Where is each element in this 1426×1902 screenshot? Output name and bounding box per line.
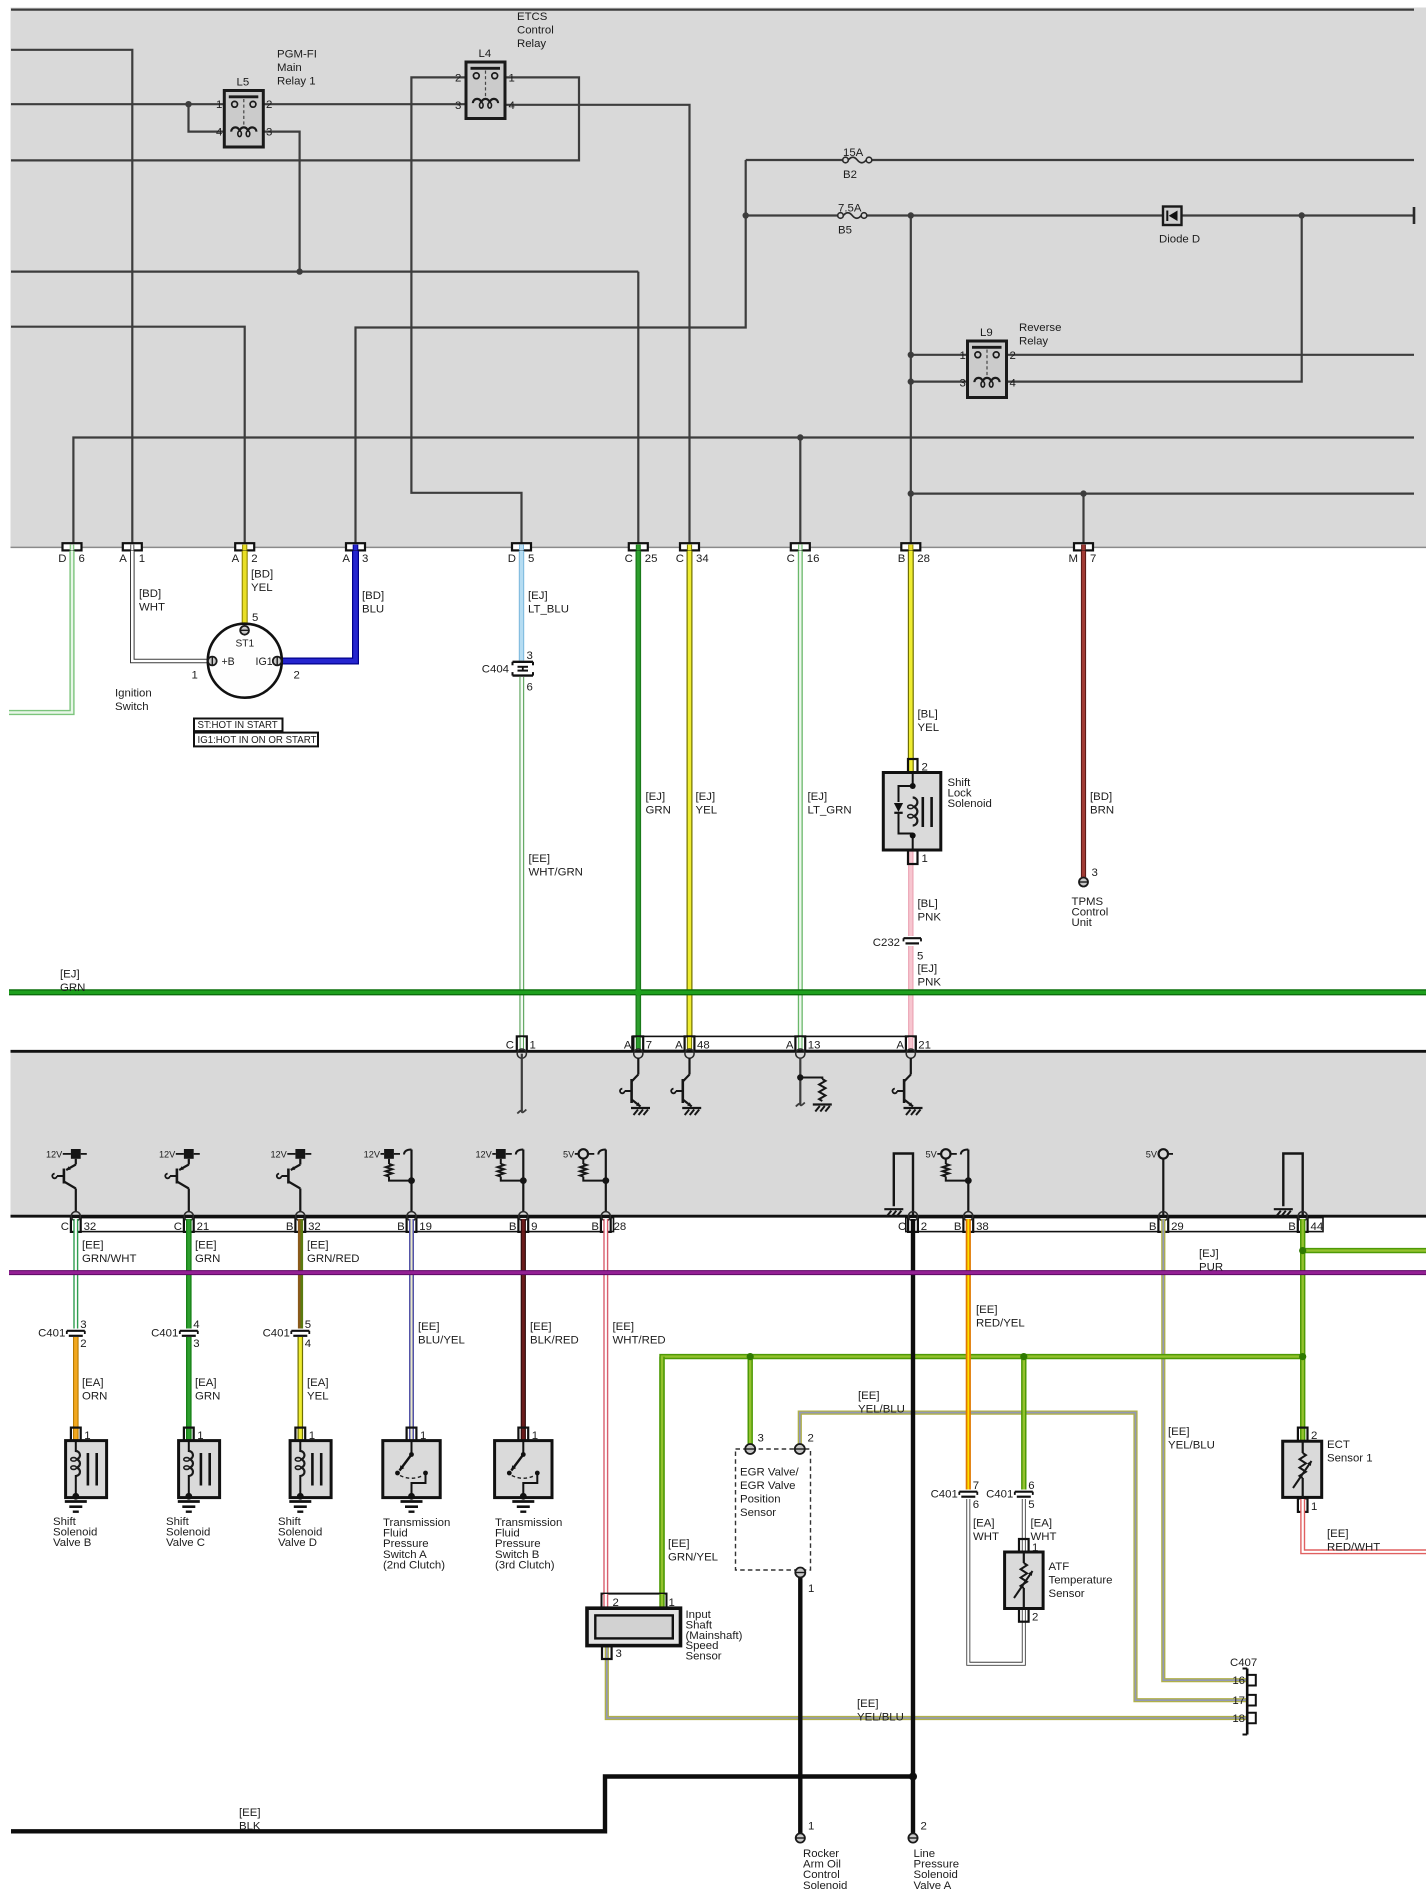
svg-text:[EE]: [EE] bbox=[858, 1390, 880, 1402]
wire bus lower right bbox=[911, 493, 1414, 495]
svg-text:1: 1 bbox=[960, 350, 966, 362]
junction bbox=[296, 268, 302, 274]
svg-text:[BL]: [BL] bbox=[918, 898, 938, 910]
svg-text:Position: Position bbox=[740, 1494, 781, 1506]
svg-text:LT_BLU: LT_BLU bbox=[528, 604, 569, 616]
svg-text:3: 3 bbox=[758, 1433, 764, 1445]
svg-text:C: C bbox=[61, 1221, 69, 1233]
pull-down resistor at pin A13 bbox=[796, 1058, 826, 1107]
ground bbox=[884, 1208, 903, 1210]
wire [EJ] LT_GRN pin C16 to pin A13 bbox=[798, 551, 803, 1037]
svg-text:C: C bbox=[787, 553, 795, 565]
svg-text:2: 2 bbox=[80, 1338, 86, 1350]
junction bbox=[1299, 1353, 1306, 1360]
svg-text:13: 13 bbox=[808, 1040, 821, 1052]
svg-text:C401: C401 bbox=[38, 1328, 65, 1340]
internal ground loop at pin C2 bbox=[894, 1154, 913, 1217]
solenoid valve pin 1 bbox=[71, 1428, 81, 1441]
svg-text:5V: 5V bbox=[926, 1149, 938, 1159]
5V pull-up at pin B38 bbox=[926, 1149, 972, 1211]
svg-text:C: C bbox=[506, 1040, 514, 1052]
svg-text:5: 5 bbox=[252, 612, 258, 624]
input shaft (mainshaft) speed sensor bbox=[587, 1608, 681, 1645]
pin B28 connector bbox=[601, 1217, 611, 1232]
wire [EE] GRN/RED pin B32 to C401 bbox=[299, 1219, 302, 1329]
svg-text:PNK: PNK bbox=[918, 977, 942, 989]
svg-text:[BD]: [BD] bbox=[1090, 791, 1112, 803]
svg-text:[EE]: [EE] bbox=[195, 1240, 217, 1252]
svg-text:1: 1 bbox=[922, 853, 928, 865]
svg-text:Sensor: Sensor bbox=[1049, 1588, 1085, 1600]
svg-text:WHT: WHT bbox=[139, 602, 165, 614]
svg-text:RED/WHT: RED/WHT bbox=[1327, 1542, 1380, 1554]
svg-text:C401: C401 bbox=[986, 1489, 1013, 1501]
wire [EJ] GRN pin C25 to pin A7 bbox=[635, 551, 641, 1037]
svg-text:A: A bbox=[896, 1040, 904, 1052]
svg-text:C: C bbox=[898, 1221, 906, 1233]
svg-text:17: 17 bbox=[1232, 1695, 1245, 1707]
wire [EJ] GRN main bus bbox=[9, 989, 1426, 995]
svg-text:12V: 12V bbox=[159, 1149, 176, 1159]
svg-text:B: B bbox=[286, 1221, 294, 1233]
wire relay L9 pin 4 coil return bbox=[1006, 216, 1302, 382]
svg-text:D: D bbox=[58, 553, 66, 565]
svg-text:Temperature: Temperature bbox=[1049, 1575, 1113, 1587]
svg-text:A: A bbox=[786, 1040, 794, 1052]
svg-text:Valve D: Valve D bbox=[278, 1537, 317, 1549]
svg-text:[EJ]: [EJ] bbox=[1199, 1248, 1219, 1260]
svg-text:2: 2 bbox=[1010, 350, 1016, 362]
svg-text:6: 6 bbox=[527, 682, 533, 694]
pin M7 connector bbox=[1074, 543, 1093, 550]
junction bbox=[1020, 1353, 1027, 1360]
svg-text:IG1:HOT IN ON OR START: IG1:HOT IN ON OR START bbox=[198, 735, 317, 746]
svg-text:Solenoid: Solenoid bbox=[803, 1880, 847, 1892]
wire relay L9 pin 2 bbox=[1006, 354, 1414, 356]
svg-text:1: 1 bbox=[808, 1583, 814, 1595]
ATF sensor pin 2 bbox=[1019, 1609, 1029, 1622]
svg-text:3: 3 bbox=[266, 127, 272, 139]
wire GRN/YEL branch to EGR pin 3 bbox=[748, 1357, 753, 1444]
wire L5 pin 3 bbox=[263, 132, 300, 272]
EGR valve / EGR valve position sensor box bbox=[736, 1449, 811, 1570]
svg-text:ETCS: ETCS bbox=[517, 11, 548, 23]
svg-text:L5: L5 bbox=[237, 77, 250, 89]
svg-text:9: 9 bbox=[531, 1221, 537, 1233]
svg-text:[EA]: [EA] bbox=[307, 1377, 329, 1389]
note box ST bbox=[194, 719, 283, 732]
wire to pin B28 bbox=[910, 216, 912, 544]
wire [EE] WHT/GRN C404 to pin C1 bbox=[519, 677, 524, 1037]
svg-text:GRN: GRN bbox=[646, 805, 671, 817]
band 2 top boundary bbox=[11, 1050, 1426, 1053]
svg-text:2: 2 bbox=[921, 1221, 927, 1233]
pin A1 connector bbox=[123, 543, 142, 550]
svg-text:C: C bbox=[174, 1221, 182, 1233]
wire [EE] BLK pin C2 to line pressure solenoid bbox=[911, 1219, 915, 1834]
ground bbox=[401, 1500, 423, 1503]
wire [BD] WHT pin A1 to ignition +B bbox=[132, 551, 208, 661]
pin A13 connector bbox=[795, 1036, 805, 1051]
svg-text:6: 6 bbox=[973, 1499, 979, 1511]
svg-text:C: C bbox=[676, 553, 684, 565]
relay L9 box bbox=[968, 341, 1007, 398]
svg-text:[EJ]: [EJ] bbox=[60, 969, 80, 981]
svg-text:[EE]: [EE] bbox=[668, 1538, 690, 1550]
relay L5 box bbox=[224, 91, 263, 148]
ECU internal area (lower gray band) bbox=[11, 1051, 1426, 1216]
svg-text:Switch: Switch bbox=[115, 701, 149, 713]
svg-text:B: B bbox=[954, 1221, 962, 1233]
svg-text:YEL: YEL bbox=[307, 1391, 329, 1403]
svg-text:A: A bbox=[119, 553, 127, 565]
svg-text:Diode D: Diode D bbox=[1159, 234, 1200, 246]
wire to pin C25 bbox=[637, 272, 639, 544]
svg-text:21: 21 bbox=[197, 1221, 210, 1233]
svg-text:C407: C407 bbox=[1230, 1657, 1257, 1669]
svg-text:B5: B5 bbox=[838, 225, 852, 237]
svg-text:BLU: BLU bbox=[362, 604, 384, 616]
svg-text:[BD]: [BD] bbox=[251, 569, 273, 581]
svg-text:3: 3 bbox=[1092, 867, 1098, 879]
wire [BL] PNK shift lock solenoid pin 1 to C232 bbox=[908, 852, 913, 937]
svg-text:WHT: WHT bbox=[973, 1531, 999, 1543]
ground bbox=[1274, 1208, 1293, 1210]
svg-text:28: 28 bbox=[917, 553, 930, 565]
TPMS control unit terminal pin 3 bbox=[1079, 878, 1088, 887]
svg-text:1: 1 bbox=[509, 73, 515, 85]
svg-text:2: 2 bbox=[266, 99, 272, 111]
wire relay L4 pin 4 to pin C34 bbox=[505, 105, 690, 544]
svg-text:A: A bbox=[675, 1040, 683, 1052]
svg-text:BLU/YEL: BLU/YEL bbox=[418, 1335, 465, 1347]
ignition terminal IG1 pin 2 bbox=[273, 657, 282, 666]
svg-text:GRN/RED: GRN/RED bbox=[307, 1253, 360, 1265]
svg-text:GRN: GRN bbox=[195, 1391, 220, 1403]
svg-text:38: 38 bbox=[976, 1221, 989, 1233]
svg-text:L4: L4 bbox=[479, 48, 492, 60]
svg-text:[EE]: [EE] bbox=[613, 1321, 635, 1333]
solenoid valve Valve B bbox=[66, 1441, 107, 1500]
svg-text:[EA]: [EA] bbox=[195, 1377, 217, 1389]
fuse B2 15A bbox=[843, 157, 849, 163]
shift lock solenoid pin 2 bbox=[908, 759, 918, 773]
svg-text:[EJ]: [EJ] bbox=[808, 791, 828, 803]
svg-text:C: C bbox=[625, 553, 633, 565]
wire stub in pin A13 bbox=[798, 1037, 803, 1049]
svg-text:Sensor 1: Sensor 1 bbox=[1327, 1453, 1373, 1465]
junction bbox=[908, 212, 914, 218]
transistor driver at pin A48 bbox=[671, 1058, 692, 1107]
ground bbox=[65, 1500, 87, 1503]
svg-text:Valve C: Valve C bbox=[166, 1537, 205, 1549]
pin circle bbox=[634, 1049, 643, 1058]
svg-text:+B: +B bbox=[222, 656, 235, 668]
svg-text:Solenoid: Solenoid bbox=[948, 798, 992, 810]
svg-text:Sensor: Sensor bbox=[686, 1650, 722, 1662]
rocker arm oil control solenoid terminal pin 1 bbox=[796, 1833, 805, 1842]
svg-text:YEL: YEL bbox=[696, 805, 718, 817]
junction bbox=[909, 1773, 917, 1781]
svg-text:EGR Valve: EGR Valve bbox=[740, 1480, 796, 1492]
pin circle bbox=[601, 1212, 610, 1221]
svg-text:16: 16 bbox=[807, 553, 820, 565]
svg-text:B: B bbox=[397, 1221, 405, 1233]
svg-text:12V: 12V bbox=[270, 1149, 287, 1159]
wire bus to pin D6 bbox=[73, 438, 1414, 544]
EGR terminal pin 1 bbox=[795, 1568, 805, 1578]
svg-text:YEL: YEL bbox=[918, 722, 940, 734]
svg-text:16: 16 bbox=[1232, 1675, 1245, 1687]
svg-text:M: M bbox=[1069, 553, 1079, 565]
wire [EJ] YEL pin C34 to pin A48 bbox=[687, 551, 693, 1037]
wire [EA] YEL C401 to shift solenoid valve D bbox=[297, 1337, 303, 1440]
pin A48 connector bbox=[685, 1036, 695, 1051]
svg-text:B: B bbox=[591, 1221, 599, 1233]
ECT sensor pin 1 bbox=[1298, 1498, 1308, 1512]
5V pull-up at pin B28 bbox=[563, 1149, 609, 1211]
svg-text:BRN: BRN bbox=[1090, 805, 1114, 817]
svg-text:Relay: Relay bbox=[517, 38, 546, 50]
TFP switch Switch A bbox=[383, 1441, 440, 1500]
svg-text:5: 5 bbox=[1028, 1499, 1034, 1511]
svg-text:BLK: BLK bbox=[239, 1821, 261, 1833]
junction bbox=[743, 212, 749, 218]
ground bbox=[631, 1107, 650, 1109]
svg-text:L9: L9 bbox=[980, 327, 993, 339]
svg-text:B: B bbox=[1149, 1221, 1157, 1233]
svg-text:B: B bbox=[1288, 1221, 1296, 1233]
svg-text:4: 4 bbox=[509, 100, 515, 112]
svg-text:GRN/YEL: GRN/YEL bbox=[668, 1552, 718, 1564]
svg-text:BLK/RED: BLK/RED bbox=[530, 1335, 579, 1347]
svg-text:[EJ]: [EJ] bbox=[918, 963, 938, 975]
pin B29 connector bbox=[1158, 1217, 1168, 1232]
input speed sensor connector bbox=[602, 1594, 667, 1609]
svg-text:PGM-FI: PGM-FI bbox=[277, 49, 317, 61]
svg-text:7: 7 bbox=[973, 1480, 979, 1492]
wire relay L9 pin 1 bbox=[911, 354, 968, 356]
wire [EE] YEL/BLU pin B29 to C407 pin 16 bbox=[1163, 1219, 1246, 1680]
svg-text:[EA]: [EA] bbox=[1031, 1518, 1053, 1530]
pin circle bbox=[1159, 1212, 1168, 1221]
wire [EE] BLK/RED pin B9 to TFP switch B bbox=[521, 1219, 526, 1440]
svg-text:5: 5 bbox=[528, 553, 534, 565]
wire to pin A1 bbox=[11, 50, 132, 544]
wire [EA] WHT C401 to ATF pin 1 bbox=[1022, 1499, 1026, 1551]
ECT sensor pin 2 bbox=[1298, 1428, 1308, 1442]
svg-text:[BD]: [BD] bbox=[362, 590, 384, 602]
svg-text:[EE]: [EE] bbox=[1327, 1528, 1349, 1540]
ECT sensor 1 bbox=[1283, 1441, 1322, 1497]
ignition terminal +B pin 1 bbox=[208, 657, 217, 666]
svg-text:GRN: GRN bbox=[195, 1253, 220, 1265]
junction bbox=[908, 378, 914, 384]
pin circle bbox=[184, 1212, 193, 1221]
svg-text:C404: C404 bbox=[482, 664, 509, 676]
wire 15A fuse feed bbox=[746, 159, 843, 161]
pin A21 connector bbox=[906, 1036, 916, 1051]
svg-text:YEL/BLU: YEL/BLU bbox=[857, 1712, 904, 1724]
TFP switch pin 1 bbox=[518, 1428, 528, 1441]
connector strip C32-B28 bbox=[71, 1218, 613, 1232]
pin C16 connector bbox=[791, 543, 810, 550]
svg-text:1: 1 bbox=[808, 1821, 814, 1833]
wire GRN/YEL branch to right edge bbox=[1303, 1248, 1426, 1253]
pin C32 connector bbox=[71, 1217, 81, 1232]
diode D bbox=[1163, 207, 1182, 226]
pin C1 connector bbox=[517, 1036, 527, 1051]
ignition terminal ST1 pin 5 bbox=[240, 626, 249, 635]
svg-text:LT_GRN: LT_GRN bbox=[808, 805, 852, 817]
svg-text:19: 19 bbox=[419, 1221, 432, 1233]
pin B28 connector bbox=[901, 543, 920, 550]
relay L5 contact bbox=[229, 95, 258, 98]
svg-text:4: 4 bbox=[193, 1319, 199, 1331]
relay L9 coil bbox=[974, 378, 999, 382]
svg-text:3: 3 bbox=[616, 1648, 622, 1660]
svg-text:[EE]: [EE] bbox=[82, 1240, 104, 1252]
5V reference at pin B29 bbox=[1146, 1149, 1173, 1216]
svg-text:WHT/RED: WHT/RED bbox=[613, 1335, 666, 1347]
svg-text:12V: 12V bbox=[364, 1149, 381, 1159]
fuse B5 7.5A bbox=[838, 213, 844, 219]
wire [EA] WHT C401 to ATF pin 2 bbox=[968, 1499, 1024, 1664]
svg-text:3: 3 bbox=[455, 100, 461, 112]
wire [EE] YEL/BLU input speed sensor pin 3 to C407 pin 18 bbox=[607, 1647, 1247, 1718]
svg-text:C401: C401 bbox=[151, 1328, 178, 1340]
svg-text:ORN: ORN bbox=[82, 1391, 107, 1403]
svg-text:Sensor: Sensor bbox=[740, 1507, 776, 1519]
svg-text:PNK: PNK bbox=[918, 912, 942, 924]
shift lock solenoid pin 1 bbox=[908, 851, 918, 865]
svg-text:ECT: ECT bbox=[1327, 1439, 1350, 1451]
svg-text:Relay 1: Relay 1 bbox=[277, 76, 316, 88]
wire [EE] GRN/YEL net from pin B44 bbox=[1300, 1219, 1305, 1441]
svg-text:[EE]: [EE] bbox=[1168, 1426, 1190, 1438]
svg-text:[BD]: [BD] bbox=[139, 588, 161, 600]
junction bbox=[797, 434, 803, 440]
svg-text:44: 44 bbox=[1311, 1221, 1324, 1233]
relay L5 coil bbox=[231, 127, 256, 131]
svg-text:[EJ]: [EJ] bbox=[528, 590, 548, 602]
wire GRN/YEL horizontal run bbox=[662, 1357, 1303, 1594]
svg-text:32: 32 bbox=[84, 1221, 97, 1233]
pin circle bbox=[964, 1212, 973, 1221]
svg-text:6: 6 bbox=[1028, 1480, 1034, 1492]
svg-text:[EE]: [EE] bbox=[529, 853, 551, 865]
transistor driver at pin A7 bbox=[620, 1058, 641, 1107]
svg-text:(3rd Clutch): (3rd Clutch) bbox=[495, 1559, 555, 1571]
svg-text:C401: C401 bbox=[931, 1489, 958, 1501]
ground bbox=[289, 1500, 311, 1503]
wire [EE] BLU/YEL pin B19 to TFP switch A bbox=[409, 1219, 414, 1440]
wire WHT/RED pin 2 entry bbox=[603, 1594, 608, 1607]
svg-text:7: 7 bbox=[1090, 553, 1096, 565]
relay L4 box bbox=[466, 62, 505, 119]
svg-text:5: 5 bbox=[917, 951, 923, 963]
wire [EJ] GRN pale from pin D6 to left edge bbox=[9, 551, 72, 713]
ground bbox=[178, 1500, 200, 1503]
svg-text:Unit: Unit bbox=[1072, 917, 1093, 929]
svg-text:[BL]: [BL] bbox=[918, 709, 938, 721]
svg-text:[EE]: [EE] bbox=[239, 1807, 261, 1819]
wire [EE] RED/YEL pin B38 to C401 bbox=[966, 1219, 971, 1490]
pin circle bbox=[296, 1212, 305, 1221]
svg-text:[EE]: [EE] bbox=[857, 1698, 879, 1710]
note box IG1 bbox=[194, 733, 318, 747]
wire to pin M7 bbox=[1082, 494, 1084, 544]
svg-text:4: 4 bbox=[305, 1338, 311, 1350]
junction bbox=[185, 101, 191, 107]
solenoid valve pin 1 bbox=[295, 1428, 305, 1441]
internal ground loop at pin B44 bbox=[1283, 1154, 1302, 1217]
svg-text:1: 1 bbox=[216, 99, 222, 111]
EGR terminal pin 3 bbox=[745, 1444, 755, 1454]
pin circle bbox=[519, 1212, 528, 1221]
svg-text:2: 2 bbox=[1032, 1612, 1038, 1624]
transistor 12V driver at pin C32 bbox=[46, 1149, 87, 1212]
wire stub in pin A48 bbox=[687, 1037, 692, 1049]
svg-text:6: 6 bbox=[79, 553, 85, 565]
svg-text:1: 1 bbox=[139, 553, 145, 565]
junction bbox=[908, 352, 914, 358]
transistor 12V driver at pin C21 bbox=[159, 1149, 200, 1212]
svg-text:Ignition: Ignition bbox=[115, 688, 152, 700]
pin A3 connector bbox=[346, 543, 365, 550]
pin circle bbox=[908, 1212, 917, 1221]
pin circle bbox=[685, 1049, 694, 1058]
svg-text:2: 2 bbox=[251, 553, 257, 565]
svg-text:25: 25 bbox=[645, 553, 658, 565]
ATF temperature sensor bbox=[1005, 1552, 1044, 1609]
svg-text:EGR Valve/: EGR Valve/ bbox=[740, 1467, 799, 1479]
shift lock solenoid bbox=[883, 773, 941, 851]
svg-text:RED/YEL: RED/YEL bbox=[976, 1318, 1025, 1330]
svg-text:4: 4 bbox=[1010, 378, 1016, 390]
wire [EE] WHT/RED pin B28 to input speed sensor pin 2 bbox=[603, 1219, 608, 1596]
pin circle bbox=[517, 1049, 526, 1058]
svg-text:[EE]: [EE] bbox=[976, 1304, 998, 1316]
wire top bus bbox=[11, 9, 1414, 11]
pin B19 connector bbox=[407, 1217, 417, 1232]
svg-text:7.5A: 7.5A bbox=[838, 203, 862, 215]
C1 internal line with break bbox=[521, 1054, 523, 1111]
connector C232 bbox=[904, 938, 922, 943]
pin B32 connector bbox=[295, 1217, 305, 1232]
svg-text:Valve A: Valve A bbox=[914, 1880, 952, 1892]
wire [BL] YEL pin B28 to shift lock solenoid pin 2 bbox=[908, 551, 914, 772]
svg-text:YEL/BLU: YEL/BLU bbox=[858, 1404, 905, 1416]
svg-text:5V: 5V bbox=[563, 1149, 575, 1159]
pin C2 connector bbox=[908, 1217, 918, 1232]
connector strip C2-B44 bbox=[906, 1218, 1323, 1232]
svg-text:2: 2 bbox=[808, 1433, 814, 1445]
connector C401 pins 6/5 bbox=[1015, 1492, 1033, 1497]
svg-text:29: 29 bbox=[1171, 1221, 1184, 1233]
pin B38 connector bbox=[963, 1217, 973, 1232]
relay L9 contact bbox=[972, 346, 1002, 349]
svg-text:[EE]: [EE] bbox=[307, 1240, 329, 1252]
junction bbox=[635, 989, 642, 996]
pin circle bbox=[71, 1212, 80, 1221]
junction bbox=[1299, 1247, 1306, 1254]
svg-text:34: 34 bbox=[696, 553, 709, 565]
wire stub in pin A21 bbox=[908, 1037, 913, 1049]
svg-text:3: 3 bbox=[362, 553, 368, 565]
svg-text:5: 5 bbox=[305, 1319, 311, 1331]
ground bbox=[682, 1107, 701, 1109]
